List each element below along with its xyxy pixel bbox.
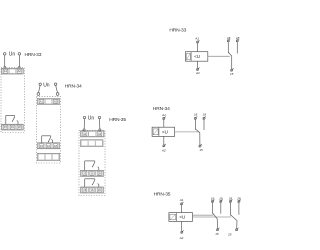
terminal A1 (schematic HRN-33) <box>194 36 199 43</box>
svg-text:18: 18 <box>18 125 21 129</box>
mechanical link line to contact (HRN-34) <box>175 131 199 133</box>
terminal 16 (schematic HRN-34) <box>194 113 198 120</box>
wire Un-left to A1 (HRN-35) <box>83 119 85 129</box>
svg-text:Un: Un <box>9 52 16 58</box>
contact arm 15-16 pole 1 (HRN-35) <box>213 213 218 228</box>
svg-text:<U: <U <box>194 54 200 59</box>
svg-text:A1: A1 <box>40 99 44 103</box>
wire Un-left to A1 (HRN-33) <box>4 55 6 66</box>
svg-text:A2: A2 <box>98 132 102 136</box>
svg-text:A2: A2 <box>179 236 184 240</box>
wire function box to A2 (HRN-33) <box>197 61 199 68</box>
terminal strip A1/A2 (HRN-35) <box>81 131 105 137</box>
svg-text:A1: A1 <box>179 198 184 202</box>
mechanical link line to contact (HRN-33) <box>208 55 230 57</box>
contact arm 15-16 (HRN-33) <box>228 52 231 69</box>
contact arm 15-16 (HRN-34) <box>195 129 200 145</box>
terminal strip 15/16/18 (HRN-34) <box>37 143 59 149</box>
relay contact symbol (HRN-33) <box>6 116 18 125</box>
wire terminal 26 down (HRN-35) <box>230 203 232 215</box>
svg-text:Un: Un <box>43 82 50 88</box>
terminal 18 (schematic HRN-34) <box>203 113 207 120</box>
svg-text:<U: <U <box>162 129 168 134</box>
wire A1 to function box (HRN-35) <box>181 205 183 213</box>
svg-text:28: 28 <box>236 196 241 200</box>
svg-text:16: 16 <box>194 113 198 117</box>
supply terminal circle Un-right (HRN-33) <box>18 53 21 56</box>
terminal 16 (schematic HRN-33) <box>227 36 231 42</box>
entry node circle A2 (HRN-35) <box>99 129 101 131</box>
wire Un-right to A2 (HRN-34) <box>56 86 58 93</box>
function box U-monitor with relay coil (HRN-34) <box>152 127 175 136</box>
wire Un-right to A2 (HRN-33) <box>18 55 20 66</box>
terminal A2 (schematic HRN-33) <box>195 68 200 76</box>
module HRN-35 faceplate drawing <box>79 116 126 196</box>
svg-text:16: 16 <box>91 188 94 192</box>
entry node circle A2 (HRN-33) <box>19 66 21 68</box>
wire Un-right to A2 (HRN-35) <box>99 119 101 129</box>
svg-text:HRN-34: HRN-34 <box>65 83 82 89</box>
supply terminal circle Un-left (HRN-33) <box>3 53 6 56</box>
wire terminal 18 down (HRN-34) <box>203 119 205 130</box>
function box U-monitor with relay coil (HRN-35) <box>169 213 193 222</box>
terminal 18 (schematic HRN-33) <box>236 36 240 42</box>
module HRN-33 faceplate drawing <box>1 52 42 133</box>
svg-text:15: 15 <box>215 232 219 236</box>
relay contact symbol (HRN-34) <box>42 136 53 143</box>
wire terminal 16 down (HRN-34) <box>194 119 196 129</box>
terminal strip 25/26/28 (HRN-35) <box>81 170 104 176</box>
terminal strip unused (HRN-35) <box>81 140 104 147</box>
relay contact symbol pole 1 (HRN-35) <box>85 179 99 187</box>
terminal 25 (schematic HRN-35) <box>227 228 238 237</box>
wire terminal 28 down (HRN-35) <box>238 203 240 215</box>
wire A1 to function box (HRN-34) <box>163 120 165 128</box>
mechanical link line to contact pole 2 (HRN-35) <box>192 216 231 218</box>
wiring schematic HRN-33 <box>169 28 239 76</box>
terminal A1 (schematic HRN-34) <box>161 113 166 120</box>
supply terminal circle Un-right (HRN-34) <box>54 83 56 85</box>
svg-text:<U: <U <box>179 215 185 220</box>
terminal 15 (schematic HRN-34) <box>199 144 203 152</box>
supply terminal circle Un-left (HRN-34) <box>39 83 41 85</box>
relay contact symbol pole 2 (HRN-35) <box>85 161 99 170</box>
entry node circle A2 (HRN-34) <box>56 93 59 96</box>
svg-text:16: 16 <box>227 36 231 40</box>
terminal strip A1/A2 (HRN-33) <box>2 68 24 74</box>
supply terminal circle Un-right (HRN-35) <box>98 116 100 118</box>
svg-text:15: 15 <box>199 148 203 152</box>
svg-text:A2: A2 <box>18 69 22 73</box>
terminal strip 15/16/18 (HRN-33) <box>2 124 24 130</box>
svg-text:16: 16 <box>211 196 215 200</box>
terminal strip unused (HRN-34) <box>37 153 59 160</box>
svg-text:18: 18 <box>203 113 207 117</box>
svg-text:15: 15 <box>230 72 234 76</box>
module HRN-34 faceplate drawing <box>36 82 82 163</box>
svg-text:28: 28 <box>98 171 101 175</box>
wire A1 to function box (HRN-33) <box>197 43 199 52</box>
svg-text:16: 16 <box>47 144 50 148</box>
svg-text:15: 15 <box>40 144 43 148</box>
entry node circle A1 (HRN-34) <box>37 93 40 96</box>
terminal 28 (schematic HRN-35) <box>236 196 241 202</box>
wire function box to A2 (HRN-35) <box>181 221 183 231</box>
terminal 15 (schematic HRN-35) <box>215 228 219 237</box>
svg-text:Un: Un <box>88 116 95 122</box>
module outline HRN-34 (dashed) <box>36 97 60 163</box>
svg-text:A1: A1 <box>161 113 166 117</box>
svg-text:HRN-35: HRN-35 <box>109 117 126 123</box>
terminal 18 (schematic HRN-35) <box>219 196 223 202</box>
svg-text:26: 26 <box>91 171 94 175</box>
svg-text:15: 15 <box>4 125 7 129</box>
svg-text:HRN-35: HRN-35 <box>154 192 171 198</box>
svg-text:15: 15 <box>83 188 86 192</box>
terminal strip 15/16/18 (HRN-35) <box>81 187 104 193</box>
wire function box to A2 (HRN-34) <box>163 136 165 144</box>
svg-text:HRN-33: HRN-33 <box>169 28 186 34</box>
svg-text:25: 25 <box>227 232 232 236</box>
wire terminal 16 down (HRN-33) <box>227 42 229 52</box>
svg-text:HRN-33: HRN-33 <box>25 52 42 58</box>
wiring schematic HRN-35 <box>154 192 241 240</box>
supply terminal circle Un-left (HRN-35) <box>83 116 85 118</box>
svg-text:A2: A2 <box>161 148 166 152</box>
terminal A2 (schematic HRN-35) <box>179 230 184 240</box>
svg-text:25: 25 <box>83 171 86 175</box>
svg-text:HRN-34: HRN-34 <box>153 106 170 112</box>
contact arm 25-26 pole 2 (HRN-35) <box>231 215 238 229</box>
mechanical link line to contact pole 1 (HRN-35) <box>192 214 213 216</box>
terminal 15 (schematic HRN-33) <box>230 68 234 76</box>
svg-text:A1: A1 <box>4 69 8 73</box>
terminal strip A1/A2 (HRN-34) <box>37 99 59 105</box>
terminal 26 (schematic HRN-35) <box>228 196 233 202</box>
svg-text:A2: A2 <box>195 71 200 75</box>
svg-text:A2: A2 <box>54 99 58 103</box>
entry node circle A1 (HRN-33) <box>4 66 6 68</box>
svg-text:26: 26 <box>228 196 233 200</box>
svg-text:18: 18 <box>219 196 223 200</box>
svg-text:A1: A1 <box>83 132 87 136</box>
svg-text:18: 18 <box>98 188 101 192</box>
svg-text:A1: A1 <box>194 36 199 40</box>
svg-text:16: 16 <box>11 125 14 129</box>
wire Un-left to A1 (HRN-34) <box>39 86 41 93</box>
svg-text:18: 18 <box>236 36 240 40</box>
terminal A2 (schematic HRN-34) <box>161 144 166 152</box>
wire terminal 16 down (HRN-35) <box>212 203 214 213</box>
terminal 16 (schematic HRN-35) <box>211 196 215 202</box>
entry node circle A1 (HRN-35) <box>83 129 85 131</box>
function box U-monitor with relay coil (HRN-33) <box>185 52 207 62</box>
module outline HRN-33 (dashed) <box>1 68 24 133</box>
module outline HRN-35 (dashed) <box>79 130 105 195</box>
terminal A1 (schematic HRN-35) <box>179 198 184 205</box>
wire terminal 18 down (HRN-33) <box>236 42 238 54</box>
svg-text:18: 18 <box>54 144 57 148</box>
wiring schematic HRN-34 <box>152 106 206 152</box>
wire terminal 18 down (HRN-35) <box>220 203 222 214</box>
